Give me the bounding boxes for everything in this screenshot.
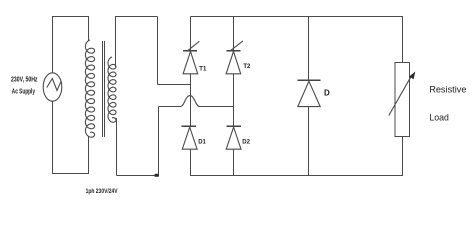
svg-text:Load: Load [429,113,449,123]
svg-text:D1: D1 [198,139,206,145]
svg-text:D: D [324,89,330,98]
svg-text:T2: T2 [243,64,251,70]
svg-text:D2: D2 [242,139,250,145]
svg-text:Ac Supply: Ac Supply [12,89,35,96]
svg-text:Resistive: Resistive [429,85,466,95]
svg-text:1ph 230V/24V: 1ph 230V/24V [86,188,119,195]
svg-text:T1: T1 [199,66,207,72]
svg-text:230V, 50Hz: 230V, 50Hz [11,77,38,84]
